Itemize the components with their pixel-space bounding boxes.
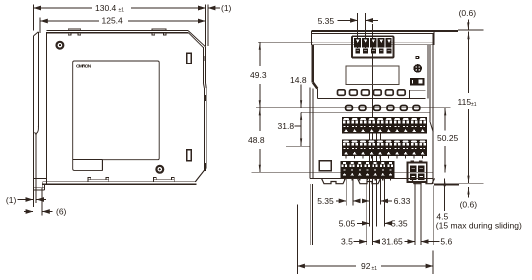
shelf step right: [410, 90, 426, 98]
svg-text:5.35: 5.35: [318, 16, 335, 26]
svg-text:OMRON: OMRON: [76, 63, 92, 69]
svg-text:5.05: 5.05: [339, 218, 356, 228]
right edge notch marks: [204, 56, 206, 171]
svg-text:125.4: 125.4: [102, 16, 124, 26]
extension lines bottom dims: [346, 178, 433, 245]
long line above base: [252, 171, 434, 173]
svg-text:31.8: 31.8: [278, 121, 295, 131]
terminal block row 3: [341, 161, 395, 178]
svg-text:115: 115: [458, 97, 472, 107]
svg-text:3.5: 3.5: [341, 237, 353, 247]
svg-text:92: 92: [361, 261, 371, 271]
svg-text:5.35: 5.35: [317, 196, 334, 206]
base thick line right: [434, 184, 459, 186]
svg-text:5.35: 5.35: [391, 218, 408, 228]
svg-text:6.33: 6.33: [394, 196, 411, 206]
foot 1: [322, 178, 346, 183]
top cap: [311, 31, 458, 45]
svg-text:31.65: 31.65: [382, 237, 404, 247]
dimension (0.6) top: [458, 20, 484, 31]
case bottom edge: [310, 177, 433, 179]
dimension 4.5: [444, 179, 446, 211]
display window: [346, 66, 399, 84]
ticks below row 2: [346, 156, 423, 159]
DIN foot ladder: [33, 179, 46, 191]
bottom dim row C: 3.5 / 31.65 / 5.6: [354, 241, 440, 243]
svg-text:(1): (1): [6, 195, 17, 205]
dimension 49.3: [258, 42, 313, 108]
button row (6 keys): [338, 90, 406, 96]
bottom dim row A: 5.35 / 6.33: [336, 200, 392, 202]
svg-text:130.4: 130.4: [95, 3, 117, 13]
LED square: [415, 56, 419, 59]
dimension 115 ±1: [467, 32, 469, 184]
dimension 14.8: [300, 85, 302, 108]
extension lines between terminal rows: [369, 134, 384, 227]
bottom tab 2: [153, 178, 174, 182]
selector switch: [410, 78, 424, 85]
DIN rail plate left: [33, 22, 40, 192]
dimension 5.35 top: [338, 13, 379, 48]
svg-text:(0.6): (0.6): [460, 200, 478, 210]
dimension 31.8: [286, 112, 310, 146]
small connector bottom right: [408, 161, 427, 182]
dimension 92 ±1: [297, 205, 433, 275]
oval terminal row: [346, 106, 420, 111]
slot top right: [187, 53, 192, 63]
svg-text:14.8: 14.8: [290, 75, 307, 85]
body outline right view: [310, 33, 433, 184]
svg-text:(0.6): (0.6): [459, 8, 477, 18]
front panel rectangle: [73, 61, 160, 170]
dimension 125.4: [40, 18, 205, 32]
square opening: [319, 161, 331, 171]
svg-text:5.6: 5.6: [440, 237, 452, 247]
svg-text:(1): (1): [221, 3, 232, 13]
centre extension line: [371, 24, 373, 245]
dimension 48.8: [259, 108, 261, 173]
sliding reference line: [459, 182, 484, 184]
dimension (1) bottom left: [18, 191, 46, 207]
svg-text:±1: ±1: [471, 102, 477, 108]
top terminal block: [352, 36, 394, 57]
svg-text:(15 max during sliding): (15 max during sliding): [436, 220, 522, 230]
terminal block row 2: [342, 140, 427, 156]
shelf line: [317, 97, 425, 99]
bottom tab 1: [88, 178, 109, 182]
svg-text:±1: ±1: [372, 266, 378, 272]
svg-text:(6): (6): [56, 207, 67, 217]
dimension 50.25: [444, 108, 446, 173]
screw top left: [57, 42, 64, 49]
omron logo: [76, 63, 92, 69]
slot bottom right: [187, 150, 191, 161]
svg-text:50.25: 50.25: [437, 133, 459, 143]
DIN plate below body: [310, 184, 312, 245]
svg-text:49.3: 49.3: [250, 70, 267, 80]
dimension (1) top right: [196, 5, 220, 47]
svg-text:48.8: 48.8: [248, 135, 265, 145]
line below ovals: [301, 111, 430, 113]
dimension (6): [24, 188, 53, 216]
round button: [413, 64, 422, 73]
ticks below row 3: [345, 178, 391, 180]
top tab 2: [152, 29, 166, 35]
foot 2: [358, 178, 381, 183]
dimension 130.4 ±1 top: [33, 5, 205, 47]
screw bottom right: [156, 166, 163, 173]
bottom dim row B: 5.05 / 5.35: [357, 222, 390, 224]
foot 3: [412, 178, 435, 183]
DIN clip hook: [35, 126, 39, 135]
extension line through ovals: [256, 107, 450, 109]
top tab 1: [68, 29, 80, 35]
left view body outline: [42, 31, 206, 185]
dimension (0.6) bottom: [467, 187, 469, 198]
terminal block row 1: [342, 117, 427, 133]
svg-text:±1: ±1: [119, 8, 125, 14]
